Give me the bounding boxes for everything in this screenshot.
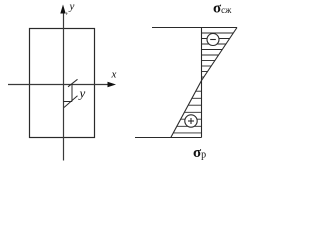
y-axis line	[63, 10, 65, 161]
rectangle cross-section outline	[30, 29, 95, 138]
bottom projection line	[135, 137, 202, 139]
svg-text:,: ,	[66, 6, 68, 16]
dimension bottom tick	[64, 96, 78, 108]
dimension vertical segment	[71, 85, 73, 102]
top projection line	[152, 27, 237, 29]
compression hatch lines	[202, 33, 234, 77]
plus sign circle	[185, 115, 197, 127]
svg-text:x: x	[111, 69, 117, 81]
compression diagonal	[202, 28, 238, 81]
svg-text:y: y	[78, 86, 86, 101]
svg-text:y: y	[69, 1, 75, 13]
tension hatch lines	[173, 91, 201, 133]
dimension bottom horizontal segment	[63, 101, 72, 103]
x-axis arrowhead	[108, 82, 117, 87]
stress diagram baseline	[201, 28, 203, 138]
y-axis arrowhead	[60, 5, 65, 14]
dimension top tick	[68, 79, 78, 87]
x-axis line	[8, 84, 110, 86]
minus sign circle	[207, 34, 219, 46]
tension diagonal	[171, 81, 202, 138]
